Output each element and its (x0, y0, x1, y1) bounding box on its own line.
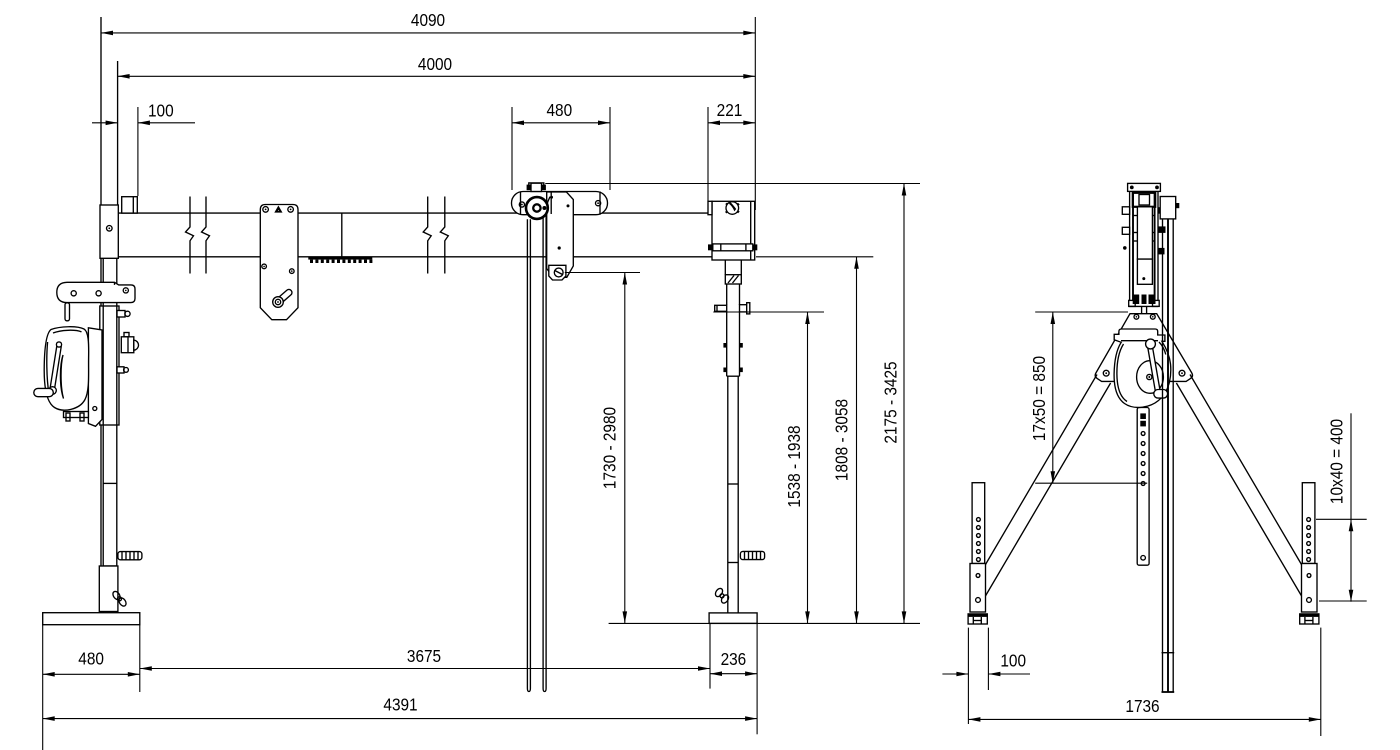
dimension 1730-2980 (624, 273, 626, 624)
ext line structure top (545, 183, 920, 185)
winch drum (1137, 361, 1164, 394)
left foot (968, 614, 987, 624)
mast column (1130, 191, 1158, 306)
ext lines below feet (967, 628, 969, 724)
svg-text:236: 236 (721, 650, 747, 669)
mast lower plate (1137, 259, 1152, 284)
svg-text:3675: 3675 (407, 647, 441, 666)
beam joint seam (341, 213, 343, 257)
svg-text:1538 - 1938: 1538 - 1938 (785, 425, 804, 507)
dimension 236 (710, 673, 757, 675)
dimension 221 (708, 122, 755, 124)
winch drum body (44, 327, 88, 410)
telescopic tube with wire rope (1162, 219, 1175, 692)
rack strip under beam (308, 257, 372, 263)
post wing nut (111, 590, 127, 607)
ground reference line (609, 622, 920, 624)
svg-text:4090: 4090 (411, 11, 445, 30)
ext line pin level (713, 311, 824, 313)
dimension 4090 (101, 32, 755, 34)
winch backing plate (88, 328, 102, 427)
svg-text:1736: 1736 (1125, 697, 1159, 716)
bracket hanger pin (65, 303, 70, 321)
bracket clamp band (708, 244, 757, 251)
post lower clamp section (99, 566, 118, 612)
svg-text:4000: 4000 (418, 55, 452, 74)
dimension 10x40=400 (1350, 413, 1352, 519)
left post joint lines (103, 483, 117, 566)
ext lines bottom left (42, 625, 44, 750)
mast top plate (1128, 183, 1161, 191)
svg-text:1808 - 3058: 1808 - 3058 (833, 399, 852, 481)
dimension 3675 (140, 668, 710, 670)
suspension plate (547, 192, 574, 277)
svg-text:4391: 4391 (383, 696, 417, 715)
svg-text:17x50 = 850: 17x50 = 850 (1030, 356, 1049, 441)
left base plate (43, 613, 140, 625)
dimension 2175-3425 (903, 184, 905, 624)
winch crank (1146, 339, 1168, 398)
rail clamp plate trolley (260, 205, 298, 320)
winch bracket (57, 282, 135, 302)
left leg foot column (970, 483, 986, 612)
dimension 1736 (968, 718, 1320, 720)
beam break mark left (186, 197, 210, 274)
dimension 1538-1938 (807, 312, 809, 623)
winch bottom bracket (64, 412, 89, 422)
winch side clamp (121, 333, 138, 353)
mast right knobs (1158, 207, 1166, 254)
svg-text:10x40 = 400: 10x40 = 400 (1328, 419, 1347, 504)
beam stop block (122, 197, 138, 213)
middle post wing nut (714, 587, 730, 604)
svg-text:100: 100 (148, 102, 174, 121)
dimension 100 side (942, 673, 968, 675)
mast bottom flanges (1129, 295, 1160, 330)
svg-text:221: 221 (717, 101, 743, 120)
ext lines top (754, 17, 756, 210)
svg-text:480: 480 (78, 650, 104, 669)
left post (101, 17, 118, 613)
dimension 1808-3058 (856, 257, 858, 624)
post sleeve at beam (100, 205, 118, 258)
ext line beam bottom (756, 256, 873, 258)
wire rope pair (527, 216, 546, 692)
svg-text:2175 - 3425: 2175 - 3425 (882, 361, 901, 443)
adjustment strut (1137, 408, 1149, 566)
middle post foot plate (709, 613, 757, 624)
middle post upper (725, 260, 741, 284)
winch T-bolt lower (117, 367, 128, 373)
ext lines 17x50 (1035, 311, 1128, 313)
dimension 480 top (512, 122, 610, 124)
dimension 4391 (43, 718, 757, 720)
tripod legs (986, 375, 1302, 596)
svg-text:480: 480 (546, 101, 572, 120)
beam break mark right (423, 197, 448, 274)
middle post tube (723, 311, 742, 614)
mast left tabs (1122, 207, 1129, 250)
rope guide box (1160, 197, 1179, 219)
winch T-bolt upper (117, 311, 130, 318)
dimension 17x50=850 (1052, 312, 1054, 483)
winch mount plate (100, 306, 119, 425)
ext lines 10x40 (1316, 518, 1367, 520)
post grip knob (118, 552, 142, 560)
svg-text:100: 100 (1000, 651, 1026, 670)
sheave window (1133, 193, 1155, 207)
dimension 480 bottom (43, 673, 140, 675)
beam end bracket (708, 201, 755, 260)
right foot (1300, 614, 1319, 624)
mast face plate (1137, 207, 1152, 259)
beam (118, 213, 754, 257)
middle post grip knob (740, 551, 764, 559)
tripod gusset plate (1095, 314, 1192, 382)
right leg foot column (1302, 483, 1318, 612)
rope shackle (549, 265, 566, 280)
middle post pins (715, 284, 750, 314)
winch housing (1114, 329, 1171, 407)
trolley T-bolt (527, 183, 546, 192)
pulley trolley body (512, 192, 608, 215)
winch crank (34, 342, 62, 397)
pulley (526, 197, 550, 219)
svg-text:1730 - 2980: 1730 - 2980 (601, 407, 620, 489)
dimension 4000 (118, 75, 756, 77)
ext line rope shackle (565, 272, 640, 274)
dimension 100 top (92, 122, 118, 124)
